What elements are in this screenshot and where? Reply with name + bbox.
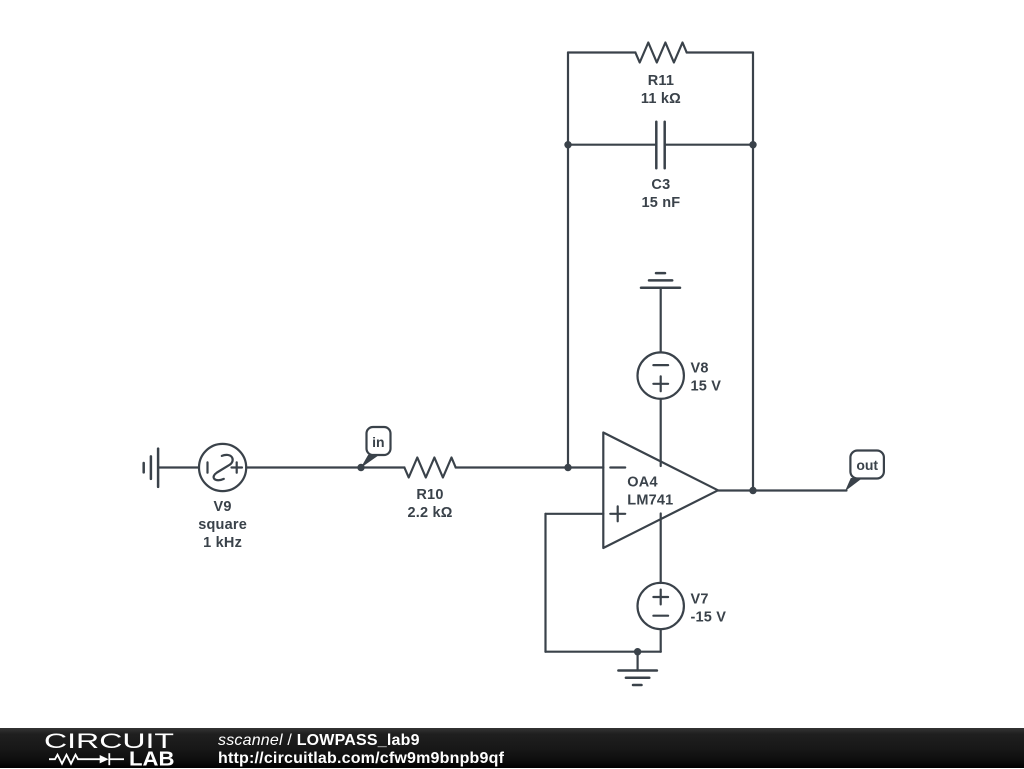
capacitor C3 <box>656 122 664 169</box>
wire: C3 row left <box>568 144 656 146</box>
net flag tail: out <box>845 478 863 491</box>
net flag "out" <box>850 451 884 479</box>
svg-text:C3: C3 <box>651 177 670 193</box>
net flag "in" <box>367 427 391 455</box>
ground (bottom) <box>636 652 638 671</box>
node: in junction <box>357 464 364 471</box>
footer text <box>218 732 504 769</box>
node: C3 left junction <box>564 141 571 148</box>
svg-text:15 nF: 15 nF <box>641 195 680 211</box>
ground (left, at V9) <box>144 449 158 487</box>
wire: top ground to V8 <box>660 288 662 353</box>
svg-text:11 kΩ: 11 kΩ <box>641 91 681 107</box>
op-amp OA4 <box>603 433 718 549</box>
svg-text:in: in <box>372 434 384 450</box>
node: output junction <box>749 487 756 494</box>
CircuitLab logo <box>0 728 200 768</box>
voltage source V8 <box>638 352 684 398</box>
svg-text:R11: R11 <box>648 73 674 89</box>
svg-text:V7: V7 <box>691 592 709 608</box>
wire: V8 to op-amp positive supply pin <box>660 399 662 466</box>
ground (top, at V8) <box>641 273 680 288</box>
svg-text:-15 V: -15 V <box>691 610 727 626</box>
svg-text:out: out <box>856 457 878 473</box>
wire: left ground to V9 <box>158 466 199 468</box>
wire: plus input row <box>546 513 604 515</box>
wire: left feedback vertical <box>567 53 569 468</box>
voltage source V7 <box>638 583 684 629</box>
wire: right feedback vertical <box>752 53 754 491</box>
wire: top feedback right segment <box>687 51 753 53</box>
svg-text:V9: V9 <box>214 499 232 515</box>
wire: op-amp negative supply pin to V7 <box>660 514 662 584</box>
wire: C3 row right <box>665 144 753 146</box>
svg-text:OA4: OA4 <box>627 475 657 491</box>
svg-text:V8: V8 <box>691 361 709 377</box>
svg-text:1 kHz: 1 kHz <box>203 535 242 551</box>
svg-text:2.2 kΩ: 2.2 kΩ <box>407 505 452 521</box>
wire: op-amp output <box>718 489 847 491</box>
node: bottom ground junction <box>634 648 641 655</box>
svg-text:square: square <box>198 517 247 533</box>
node: C3 right junction <box>749 141 756 148</box>
wire: V9 to in junction to R10 <box>246 466 404 468</box>
wire: V7 to bottom row <box>660 629 662 652</box>
svg-text:15 V: 15 V <box>691 379 722 395</box>
resistor R11 <box>635 43 686 63</box>
node: inverting input junction <box>564 464 571 471</box>
wire: plus input vertical <box>544 514 546 652</box>
net flag tail: in <box>361 455 380 468</box>
wire: R10 to op-amp inverting input <box>456 466 604 468</box>
wire: top feedback left segment <box>568 51 635 53</box>
wire: bottom row <box>546 651 661 653</box>
footer bar <box>0 728 1024 768</box>
resistor R10 <box>404 458 455 478</box>
voltage source V9 (square) <box>199 444 246 491</box>
svg-text:R10: R10 <box>416 487 443 503</box>
svg-text:LAB: LAB <box>129 749 175 769</box>
svg-text:LM741: LM741 <box>627 493 673 509</box>
